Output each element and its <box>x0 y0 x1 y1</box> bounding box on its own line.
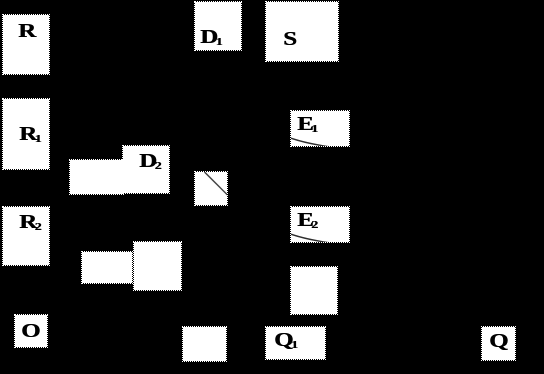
node D1 <box>194 1 242 51</box>
node D2 <box>122 145 170 194</box>
node R <box>2 14 50 75</box>
right box of lower pair <box>133 241 182 291</box>
node Q1 <box>265 326 326 360</box>
node E1 <box>290 110 350 147</box>
curve through E1 <box>291 111 351 148</box>
box below E2 <box>290 266 338 315</box>
left box of lower pair <box>81 251 133 284</box>
node E2 <box>290 206 350 243</box>
box left of D2 <box>69 159 124 195</box>
box with diagonal line <box>194 171 228 206</box>
diagonal line <box>195 172 229 207</box>
bottom middle box <box>182 326 227 362</box>
node Q <box>481 326 516 361</box>
node S <box>265 1 339 62</box>
node R1 <box>2 98 50 170</box>
node O <box>14 314 48 348</box>
node R2 <box>2 206 50 266</box>
curve through E2 <box>291 207 351 244</box>
